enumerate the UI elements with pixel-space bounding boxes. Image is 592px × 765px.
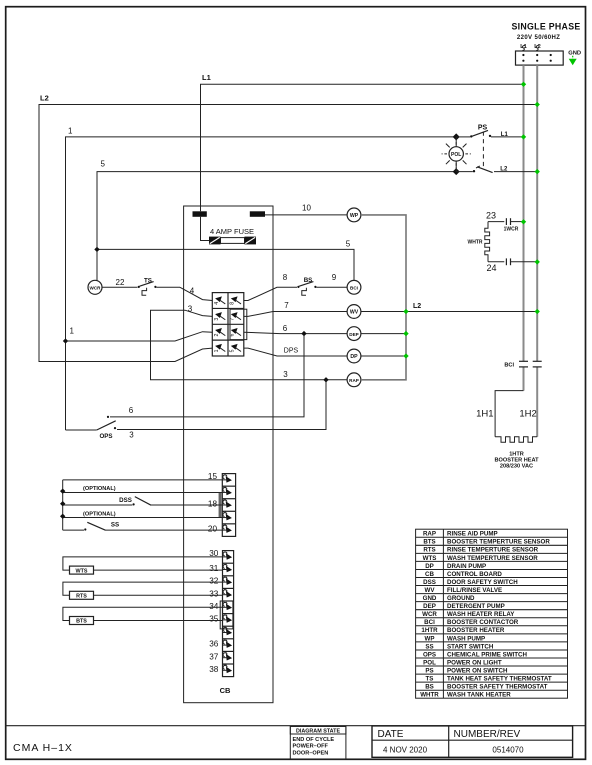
svg-text:5: 5 xyxy=(346,239,351,248)
svg-text:(OPTIONAL): (OPTIONAL) xyxy=(83,486,116,492)
connector J1 pin 6 xyxy=(230,328,242,336)
svg-text:3: 3 xyxy=(214,318,220,321)
bus L2 secondary xyxy=(361,215,421,380)
svg-text:22: 22 xyxy=(116,278,125,287)
connector J1 pin 1 xyxy=(214,344,226,352)
pin number 35 xyxy=(209,615,219,624)
ground GND symbol xyxy=(568,51,581,66)
svg-text:DIAGRAM STATE: DIAGRAM STATE xyxy=(296,729,341,735)
svg-text:RAP: RAP xyxy=(349,378,359,383)
pin 34 xyxy=(222,600,232,610)
svg-text:DRAIN PUMP: DRAIN PUMP xyxy=(447,563,486,570)
connector J1 pin 3 xyxy=(214,312,226,320)
wire L2 feeder vertical xyxy=(536,65,538,437)
connector J1 pin 5 xyxy=(230,344,242,352)
svg-text:BTS: BTS xyxy=(76,619,87,625)
relay coil WCR (wash heater relay) xyxy=(88,280,102,294)
svg-text:OPS: OPS xyxy=(99,433,112,440)
svg-text:CHEMICAL PRIME SWITCH: CHEMICAL PRIME SWITCH xyxy=(447,651,528,658)
svg-text:L1: L1 xyxy=(501,132,509,138)
svg-text:3: 3 xyxy=(129,430,134,439)
svg-text:CMA H–1X: CMA H–1X xyxy=(13,742,73,754)
junction optional upper xyxy=(60,488,65,493)
svg-text:DSS: DSS xyxy=(119,497,132,504)
svg-text:38: 38 xyxy=(209,665,219,674)
svg-text:WASH PUMP: WASH PUMP xyxy=(447,635,485,642)
pin number 34 xyxy=(209,602,219,611)
junction wire1 / branch xyxy=(63,338,68,343)
optional wire (upper) xyxy=(63,486,223,493)
title bar CMA H-1X xyxy=(13,742,73,754)
junction wire3 / RAP row xyxy=(323,377,328,382)
switch DSS (door safety) xyxy=(63,497,223,506)
svg-text:WASH TANK HEATER: WASH TANK HEATER xyxy=(447,692,511,699)
svg-text:OPS: OPS xyxy=(423,651,436,658)
svg-text:7: 7 xyxy=(284,301,289,310)
pin 20 xyxy=(222,523,232,533)
svg-text:L1: L1 xyxy=(520,44,527,50)
svg-text:34: 34 xyxy=(209,602,219,611)
svg-text:2: 2 xyxy=(214,333,220,336)
svg-text:1: 1 xyxy=(214,349,220,352)
wire 8 xyxy=(244,273,297,300)
switch OPS (chemical prime) xyxy=(66,416,117,440)
wire DEP row to bus xyxy=(361,333,406,335)
pump DEP (detergent) xyxy=(347,327,361,341)
svg-text:4 NOV 2020: 4 NOV 2020 xyxy=(383,745,428,754)
pin 15 xyxy=(222,475,232,483)
svg-text:5: 5 xyxy=(230,349,236,352)
junction L2 feeder / PS (green) xyxy=(535,169,540,174)
junction 1WCR / L1 feeder (green) xyxy=(521,219,526,224)
svg-text:WHTR: WHTR xyxy=(468,240,483,246)
svg-text:0514070: 0514070 xyxy=(492,746,524,755)
lamp POL (power on light) xyxy=(442,137,471,172)
svg-text:BCI: BCI xyxy=(350,286,358,291)
junction bus/DEP (green) xyxy=(403,331,408,336)
junction L2 feeder / wire L2 top (green) xyxy=(535,102,540,107)
terminal block TB1 xyxy=(516,44,564,65)
pin 32 xyxy=(222,575,232,585)
pin 36 xyxy=(222,638,232,648)
legend table xyxy=(416,529,568,698)
svg-text:WTS: WTS xyxy=(76,568,88,574)
wire L1 feeder vertical xyxy=(523,65,525,391)
svg-text:DP: DP xyxy=(350,354,358,360)
svg-text:BOOSTER HEATER: BOOSTER HEATER xyxy=(447,627,505,634)
valve WV (fill/rinse) xyxy=(347,305,361,319)
svg-text:L2: L2 xyxy=(40,93,49,102)
svg-text:L2: L2 xyxy=(413,303,421,310)
wire DP row to bus xyxy=(361,355,406,357)
svg-text:CB: CB xyxy=(425,571,434,578)
junction wire6 / DEP row xyxy=(301,331,306,336)
svg-text:WP: WP xyxy=(425,635,435,642)
svg-text:WHTR: WHTR xyxy=(420,692,439,699)
svg-text:32: 32 xyxy=(209,577,219,586)
contactor coil BCI xyxy=(347,280,361,294)
svg-text:RTS: RTS xyxy=(76,594,87,600)
pin number 36 xyxy=(209,640,219,649)
diagram state box xyxy=(290,726,346,759)
wire L2 top run xyxy=(39,93,537,361)
svg-text:4 AMP FUSE: 4 AMP FUSE xyxy=(210,227,254,236)
svg-text:1: 1 xyxy=(70,327,75,336)
svg-text:220V 50/60HZ: 220V 50/60HZ xyxy=(517,35,561,41)
sensor RTS xyxy=(63,582,223,599)
wire 4 xyxy=(180,286,212,300)
svg-text:BTS: BTS xyxy=(423,539,435,546)
svg-text:PS: PS xyxy=(425,667,433,674)
pin 31 xyxy=(222,562,232,572)
svg-text:(OPTIONAL): (OPTIONAL) xyxy=(83,511,116,517)
svg-text:RINSE TEMPERTURE SENSOR: RINSE TEMPERTURE SENSOR xyxy=(447,547,539,554)
wire 3 from OPS xyxy=(117,380,326,440)
svg-text:WASH TEMPERTURE SENSOR: WASH TEMPERTURE SENSOR xyxy=(447,555,538,562)
sensor WTS xyxy=(63,557,223,574)
svg-text:L1: L1 xyxy=(202,73,211,82)
label SINGLE PHASE 220V 50/60HZ xyxy=(511,22,580,41)
junction WV row / L2 feeder (green) xyxy=(535,309,540,314)
svg-text:BCI: BCI xyxy=(424,619,435,626)
svg-text:37: 37 xyxy=(209,652,219,661)
svg-text:WP: WP xyxy=(350,213,359,219)
svg-text:POL: POL xyxy=(451,152,461,158)
pin strip1-3 xyxy=(222,485,232,495)
svg-text:5: 5 xyxy=(101,160,106,169)
connector J1 housing outline xyxy=(230,309,247,339)
junction bus/DP (green) xyxy=(403,353,408,358)
pump RAP (rinse aid) xyxy=(347,373,361,387)
svg-text:SS: SS xyxy=(111,521,119,528)
title table DATE / NUMBER-REV xyxy=(372,726,573,757)
svg-text:208/230 VAC: 208/230 VAC xyxy=(500,463,533,469)
wire L1 top run xyxy=(201,73,524,211)
pin number 32 xyxy=(209,577,219,586)
node 24 xyxy=(486,262,504,273)
svg-text:33: 33 xyxy=(209,589,219,598)
switch PS (power on switch, DPST) xyxy=(453,125,538,176)
contactor BCI main contacts xyxy=(504,361,541,368)
svg-text:4: 4 xyxy=(214,302,220,305)
pin number 38 xyxy=(209,665,219,674)
contact 1WCR xyxy=(504,218,524,232)
pin 30 xyxy=(223,552,233,560)
svg-text:SINGLE PHASE: SINGLE PHASE xyxy=(511,22,580,32)
svg-text:POL: POL xyxy=(423,659,436,666)
junction L1 feeder / wire L1 top (green) xyxy=(521,82,526,87)
pin number 30 xyxy=(209,549,219,558)
pin number 18 xyxy=(208,500,218,509)
svg-text:1: 1 xyxy=(68,127,73,136)
thermostat BS (booster safety) xyxy=(297,277,316,295)
svg-text:WV: WV xyxy=(425,587,436,594)
svg-text:L2: L2 xyxy=(500,166,508,172)
wire 7 xyxy=(244,301,347,316)
svg-text:20: 20 xyxy=(208,525,218,534)
junction bus/WV (green) xyxy=(403,309,408,314)
svg-text:BCI: BCI xyxy=(504,363,514,369)
motor WP (wash pump) xyxy=(347,208,361,222)
booster heater 1HTR xyxy=(476,391,539,470)
wire 9 xyxy=(316,273,347,287)
wire DPS xyxy=(244,347,347,356)
wire 1 xyxy=(66,127,457,430)
svg-text:BS: BS xyxy=(425,684,434,691)
wire 6 from OPS xyxy=(110,334,304,417)
svg-text:8: 8 xyxy=(283,273,288,282)
connector housing pins 34-35 xyxy=(220,601,233,629)
svg-text:31: 31 xyxy=(209,564,219,573)
svg-text:8: 8 xyxy=(230,302,236,305)
sensor BTS xyxy=(63,607,223,624)
thermostat TS (tank heat safety) xyxy=(138,278,180,295)
fuse F1 4 AMP xyxy=(201,217,257,245)
connector J1 pin 2 xyxy=(214,328,226,336)
svg-text:GND: GND xyxy=(568,51,581,57)
svg-text:3: 3 xyxy=(283,370,288,379)
switch SS (start switch) xyxy=(63,521,223,530)
svg-text:DPS: DPS xyxy=(284,347,299,354)
svg-text:WV: WV xyxy=(350,310,359,316)
svg-text:DOOR–OPEN: DOOR–OPEN xyxy=(293,751,329,757)
svg-text:POWER ON SWITCH: POWER ON SWITCH xyxy=(447,667,508,674)
pin 37 xyxy=(222,650,232,660)
svg-text:END OF CYCLE: END OF CYCLE xyxy=(293,737,335,743)
connector strip pins 30-38 xyxy=(223,551,234,677)
pin number 15 xyxy=(208,472,218,481)
svg-text:CB: CB xyxy=(220,686,231,695)
svg-text:POWER ON LIGHT: POWER ON LIGHT xyxy=(447,659,502,666)
pin number 33 xyxy=(209,589,219,598)
wire to pin 15 xyxy=(63,480,223,530)
svg-text:RINSE AID PUMP: RINSE AID PUMP xyxy=(447,531,498,538)
wire 6 xyxy=(244,324,347,334)
svg-text:6: 6 xyxy=(283,324,288,333)
connector J1 pin 8 xyxy=(230,296,242,304)
svg-text:DSS: DSS xyxy=(423,579,436,586)
svg-text:DEP: DEP xyxy=(349,332,358,337)
wire 22 xyxy=(102,278,138,287)
pin 33 xyxy=(222,587,232,597)
svg-text:POWER–OFF: POWER–OFF xyxy=(293,744,329,750)
svg-text:NUMBER/REV: NUMBER/REV xyxy=(454,729,521,740)
svg-text:DATE: DATE xyxy=(378,729,404,740)
svg-text:SS: SS xyxy=(425,643,433,650)
junction node24 / L2 feeder (green) xyxy=(535,259,540,264)
node 23 xyxy=(486,211,504,222)
svg-text:FILL/RINSE VALVE: FILL/RINSE VALVE xyxy=(447,587,502,594)
svg-text:START SWITCH: START SWITCH xyxy=(447,643,494,650)
wire 10 xyxy=(265,203,347,215)
svg-text:CONTROL BOARD: CONTROL BOARD xyxy=(447,571,502,578)
label CB xyxy=(220,686,231,695)
contact BCI aux (node 24) xyxy=(506,258,537,265)
svg-text:BOOSTER CONTACTOR: BOOSTER CONTACTOR xyxy=(447,619,519,626)
svg-text:WASH HEATER RELAY: WASH HEATER RELAY xyxy=(447,611,515,618)
svg-text:WCR: WCR xyxy=(422,611,437,618)
junction optional lower xyxy=(60,514,65,519)
pin number 31 xyxy=(209,564,219,573)
wire 3 xyxy=(151,304,348,379)
svg-text:36: 36 xyxy=(209,640,219,649)
pin 35 xyxy=(222,613,232,623)
pin strip1-5 xyxy=(222,510,232,520)
svg-text:6: 6 xyxy=(129,406,134,415)
pin strip2-nc xyxy=(222,625,232,635)
svg-text:BOOSTER SAFETY THERMOSTAT: BOOSTER SAFETY THERMOSTAT xyxy=(447,684,548,691)
svg-text:RTS: RTS xyxy=(423,547,435,554)
optional wire (lower) xyxy=(63,511,223,517)
connector strip pins 15-20 xyxy=(222,474,235,537)
pin number 37 xyxy=(209,652,219,661)
svg-text:10: 10 xyxy=(302,203,311,212)
svg-text:DETERGENT PUMP: DETERGENT PUMP xyxy=(447,603,505,610)
junction wire5 / branch xyxy=(94,247,99,252)
control board CB box xyxy=(184,206,273,703)
connector J1 block xyxy=(212,293,244,356)
svg-text:18: 18 xyxy=(208,500,218,509)
CB input terminal pad xyxy=(193,211,207,217)
junction DSS row xyxy=(60,501,65,506)
svg-text:9: 9 xyxy=(332,273,337,282)
svg-text:GROUND: GROUND xyxy=(447,595,475,602)
pin 18 xyxy=(222,498,232,508)
svg-text:L2: L2 xyxy=(534,44,541,50)
svg-text:DP: DP xyxy=(425,563,434,570)
junction L1 feeder / PS (green) xyxy=(521,134,526,139)
svg-text:1H1: 1H1 xyxy=(476,408,493,419)
svg-text:1WCR: 1WCR xyxy=(504,227,519,233)
svg-text:TANK HEAT SAFETY THERMOSTAT: TANK HEAT SAFETY THERMOSTAT xyxy=(447,676,552,683)
pump DP (drain) xyxy=(347,349,361,363)
svg-text:BOOSTER TEMPERTURE SENSOR: BOOSTER TEMPERTURE SENSOR xyxy=(447,539,550,546)
pin number 20 xyxy=(208,525,218,534)
svg-text:DOOR SAFETY SWITCH: DOOR SAFETY SWITCH xyxy=(447,579,518,586)
CB output terminal pad xyxy=(250,211,265,217)
svg-text:24: 24 xyxy=(486,263,496,273)
svg-text:TS: TS xyxy=(426,676,434,683)
wire 5 xyxy=(97,160,456,281)
svg-text:1H2: 1H2 xyxy=(519,408,536,419)
connector J1 pin 7 xyxy=(230,312,242,320)
connector J1 pin 4 xyxy=(214,296,226,304)
svg-text:RAP: RAP xyxy=(423,531,436,538)
svg-text:35: 35 xyxy=(209,615,219,624)
wire WV row to L2 feeder xyxy=(361,311,537,313)
heater WHTR xyxy=(468,222,490,262)
strip1 tie bar xyxy=(219,492,221,517)
svg-text:WTS: WTS xyxy=(423,555,437,562)
svg-text:WCR: WCR xyxy=(90,286,102,291)
svg-text:GND: GND xyxy=(423,595,437,602)
svg-text:23: 23 xyxy=(486,211,496,221)
svg-text:1HTR: 1HTR xyxy=(421,627,438,634)
svg-text:DEP: DEP xyxy=(423,603,436,610)
pin 38 xyxy=(222,663,232,673)
